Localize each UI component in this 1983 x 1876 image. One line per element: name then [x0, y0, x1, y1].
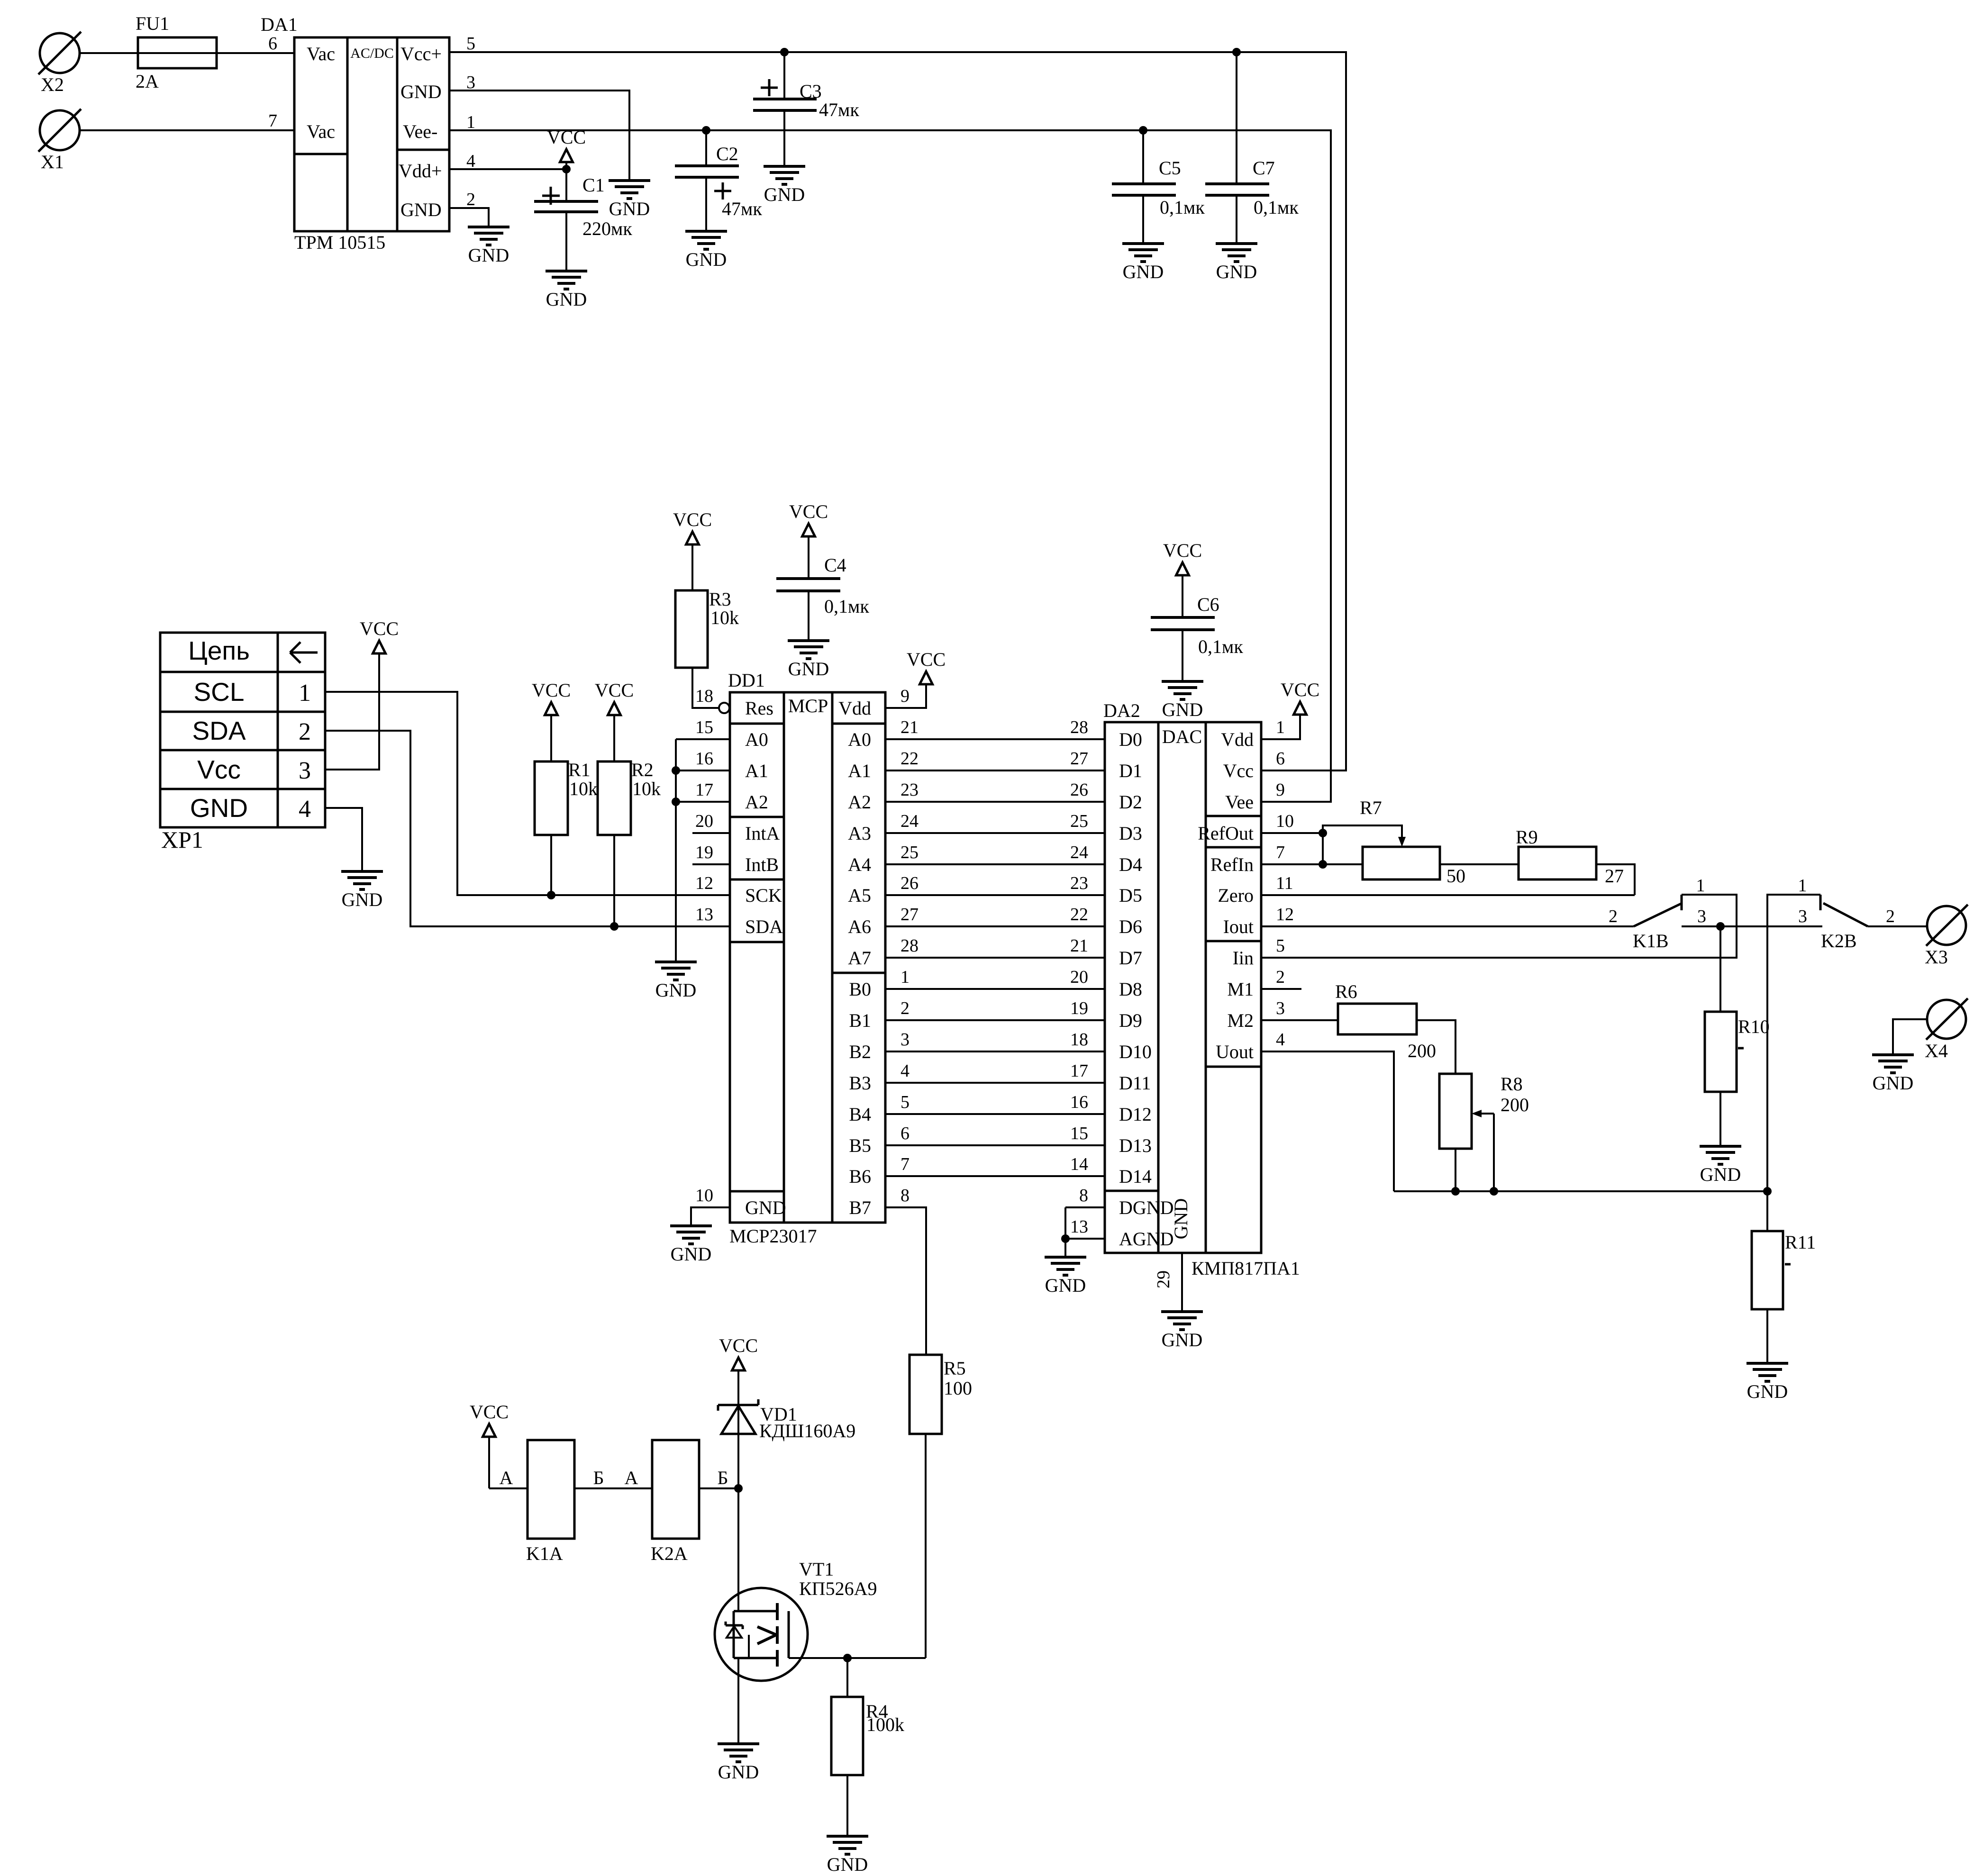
wire DA1 pin4 Vdd+ — [449, 168, 566, 170]
svg-text:FU1: FU1 — [136, 13, 169, 34]
wire R7 to R9 — [1440, 863, 1519, 865]
svg-text:5: 5 — [466, 34, 475, 54]
svg-text:15: 15 — [1070, 1124, 1088, 1143]
wire R11 to GND — [1766, 1309, 1768, 1363]
ground (DD1 pin10) — [670, 1226, 712, 1265]
svg-text:6: 6 — [1276, 749, 1285, 769]
AC/DC converter DA1 — [261, 14, 449, 253]
svg-text:13: 13 — [695, 905, 713, 924]
svg-text:VCC: VCC — [547, 127, 586, 148]
svg-text:A1: A1 — [745, 760, 768, 781]
svg-text:RefOut: RefOut — [1198, 823, 1254, 844]
svg-text:C6: C6 — [1197, 594, 1219, 615]
wire DA1 pin3 GND — [449, 91, 629, 181]
svg-text:7: 7 — [268, 111, 277, 131]
svg-text:GND: GND — [400, 81, 442, 102]
wire DA2 Vdd pin1 to VCC — [1261, 715, 1300, 739]
ground (C5) — [1122, 244, 1164, 282]
svg-text:R2: R2 — [631, 759, 654, 780]
svg-text:VT1: VT1 — [799, 1559, 834, 1580]
svg-text:Vcc+: Vcc+ — [400, 43, 442, 64]
svg-text:C4: C4 — [824, 554, 846, 576]
svg-text:D4: D4 — [1119, 854, 1142, 875]
svg-text:Uout: Uout — [1216, 1041, 1254, 1062]
svg-text:SCK: SCK — [745, 885, 782, 906]
svg-text:1: 1 — [1696, 876, 1705, 896]
svg-text:D1: D1 — [1119, 760, 1142, 781]
svg-text:GND: GND — [1747, 1381, 1788, 1402]
svg-text:А: А — [625, 1467, 638, 1488]
DA2 left pin numbers — [1070, 717, 1088, 1237]
resistor R2 — [598, 759, 661, 835]
wire DD1 GND pin10 — [691, 1207, 730, 1226]
ground (C6) — [1162, 681, 1203, 720]
svg-text:3: 3 — [1798, 906, 1807, 926]
wire XP1 pin4 to GND — [325, 808, 362, 871]
svg-text:4: 4 — [1276, 1030, 1285, 1050]
svg-text:5: 5 — [901, 1092, 910, 1112]
svg-text:VCC: VCC — [789, 501, 828, 522]
svg-text:21: 21 — [901, 717, 919, 737]
wire R8 bottom — [1455, 1149, 1456, 1191]
relay coil K1A — [500, 1440, 604, 1564]
svg-text:13: 13 — [1070, 1217, 1088, 1237]
svg-text:B6: B6 — [849, 1166, 871, 1187]
svg-text:Vac: Vac — [307, 121, 335, 142]
svg-text:A6: A6 — [848, 916, 871, 937]
power VCC (R3) — [673, 509, 712, 590]
svg-text:DA1: DA1 — [261, 14, 298, 35]
svg-text:22: 22 — [1070, 905, 1088, 924]
svg-text:C2: C2 — [716, 143, 738, 164]
pin number 7 — [268, 111, 277, 131]
ground (DA1 pin2) — [468, 227, 509, 266]
wire R6 to R8 — [1417, 1020, 1455, 1074]
svg-text:2: 2 — [1609, 906, 1618, 926]
wire DA2 Uout pin4 — [1261, 1051, 1394, 1191]
svg-text:GND: GND — [190, 793, 248, 823]
svg-text:19: 19 — [695, 843, 713, 862]
ground (VT1 source) — [718, 1744, 759, 1783]
svg-text:26: 26 — [901, 873, 919, 893]
pin number 6 — [268, 34, 277, 54]
ground (DA2 DGND/AGND) — [1045, 1257, 1086, 1296]
svg-text:B3: B3 — [849, 1072, 871, 1094]
resistor R11 — [1752, 1191, 1816, 1309]
svg-text:7: 7 — [1276, 843, 1285, 862]
svg-text:200: 200 — [1501, 1094, 1529, 1115]
svg-text:GND: GND — [1873, 1072, 1914, 1094]
svg-text:1: 1 — [299, 680, 311, 707]
wire DD1 IntA stub — [692, 832, 730, 834]
wire DD1 A0 A1 A2 to GND — [676, 739, 730, 962]
svg-text:Vdd: Vdd — [838, 698, 871, 719]
svg-text:R7: R7 — [1360, 797, 1382, 818]
svg-text:VCC: VCC — [532, 680, 571, 701]
svg-text:GND: GND — [1045, 1275, 1086, 1296]
wire DA2 M2 pin3 to R6 — [1261, 1019, 1338, 1021]
svg-text:VCC: VCC — [360, 618, 399, 639]
node R1/SCL — [547, 891, 555, 899]
svg-text:A5: A5 — [848, 885, 871, 906]
svg-text:K2A: K2A — [651, 1543, 688, 1564]
wire VT1 drain to R5/R4 — [789, 1434, 926, 1658]
node RefIn junction — [1319, 860, 1327, 869]
svg-text:10: 10 — [1276, 811, 1294, 831]
svg-text:10k: 10k — [710, 607, 739, 628]
svg-text:GND: GND — [546, 289, 587, 310]
svg-text:47мк: 47мк — [722, 198, 762, 219]
svg-text:2: 2 — [1276, 967, 1285, 987]
wire RefOut to R7 wiper — [1323, 825, 1402, 843]
svg-text:GND: GND — [788, 658, 829, 680]
DA2 left pin names — [1119, 729, 1174, 1250]
svg-text:M2: M2 — [1227, 1010, 1254, 1031]
resistor R9 — [1516, 826, 1624, 887]
svg-text:8: 8 — [1079, 1186, 1088, 1205]
svg-text:VCC: VCC — [1281, 679, 1319, 700]
svg-text:GND: GND — [1162, 1329, 1203, 1350]
svg-text:0,1мк: 0,1мк — [1254, 197, 1299, 218]
capacitor C4 — [776, 554, 869, 641]
svg-text:0,1мк: 0,1мк — [1160, 197, 1205, 218]
svg-text:Б: Б — [718, 1467, 728, 1488]
svg-text:C3: C3 — [800, 81, 822, 102]
svg-text:A3: A3 — [848, 823, 871, 844]
svg-text:23: 23 — [901, 780, 919, 800]
svg-text:VCC: VCC — [719, 1335, 758, 1356]
wire data bus A0-B6 to D0-D14 — [885, 739, 1105, 1176]
wire R4 to GND — [846, 1775, 848, 1836]
wire Vcc+ rail (DA1 pin5 to DA2 Vcc pin6) — [449, 52, 1346, 770]
wire DD1 IntB stub — [692, 863, 730, 865]
svg-text:AGND: AGND — [1119, 1228, 1174, 1250]
svg-text:КП526А9: КП526А9 — [799, 1578, 877, 1599]
svg-text:Б: Б — [593, 1467, 604, 1488]
ground (C4) — [788, 641, 829, 680]
svg-text:Vdd: Vdd — [1221, 729, 1254, 750]
svg-text:6: 6 — [268, 34, 277, 54]
svg-text:23: 23 — [1070, 873, 1088, 893]
svg-text:21: 21 — [1070, 936, 1088, 956]
diode VD1 — [718, 1370, 855, 1611]
svg-text:SDA: SDA — [745, 916, 783, 937]
ground (R11) — [1746, 1363, 1788, 1402]
ground (C2) — [685, 231, 727, 270]
wire DA2 DGND AGND to GND — [1065, 1207, 1105, 1257]
capacitor C7 — [1205, 52, 1299, 244]
power VCC (R2) — [595, 680, 634, 761]
svg-text:2: 2 — [299, 718, 311, 745]
svg-text:MCP: MCP — [788, 695, 828, 716]
IC DA2 body — [1103, 700, 1300, 1279]
svg-text:DA2: DA2 — [1103, 700, 1140, 721]
node VD1/gate junction — [734, 1484, 743, 1493]
DA2 right pin names — [1198, 729, 1254, 1062]
svg-text:КДШ160А9: КДШ160А9 — [759, 1420, 855, 1441]
svg-text:1: 1 — [1276, 717, 1285, 737]
svg-text:B4: B4 — [849, 1104, 871, 1125]
svg-text:7: 7 — [901, 1154, 910, 1174]
capacitor C1 — [534, 169, 632, 271]
svg-text:10k: 10k — [569, 778, 598, 799]
wire SCL net (XP1 pin1 to DD1 SCK pin12) — [325, 692, 730, 895]
wire K1A to K2A — [574, 1487, 652, 1489]
wire Uout bottom rail — [1394, 1190, 1767, 1192]
svg-text:XP1: XP1 — [161, 826, 203, 853]
svg-text:A2: A2 — [848, 791, 871, 813]
svg-text:D7: D7 — [1119, 947, 1142, 969]
wire DA2 RefOut pin10 — [1261, 832, 1323, 834]
node R11 top — [1763, 1187, 1772, 1196]
svg-text:B2: B2 — [849, 1041, 871, 1062]
svg-text:SDA: SDA — [192, 716, 246, 745]
svg-text:C7: C7 — [1253, 157, 1275, 179]
svg-text:R1: R1 — [568, 759, 591, 780]
svg-text:1: 1 — [466, 112, 475, 132]
DD1 left pin names — [745, 698, 786, 1218]
svg-text:2: 2 — [1886, 906, 1895, 926]
svg-text:9: 9 — [1276, 780, 1285, 800]
svg-text:1: 1 — [901, 967, 910, 987]
svg-text:D3: D3 — [1119, 823, 1142, 844]
power VCC (K1A) — [470, 1401, 509, 1488]
resistor R6 — [1335, 981, 1436, 1061]
svg-text:15: 15 — [695, 717, 713, 737]
svg-text:3: 3 — [1276, 998, 1285, 1018]
power VCC (DA2 Vdd) — [1281, 679, 1319, 715]
svg-text:200: 200 — [1408, 1040, 1436, 1061]
ground (XP1 pin4) — [341, 871, 383, 910]
svg-text:А: А — [500, 1467, 513, 1488]
svg-text:DGND: DGND — [1119, 1197, 1174, 1218]
XP1 label — [161, 826, 203, 853]
svg-text:25: 25 — [1070, 811, 1088, 831]
svg-text:22: 22 — [901, 749, 919, 769]
svg-text:27: 27 — [1605, 865, 1624, 887]
DD1 left pin numbers — [695, 686, 713, 1205]
wire X4 to GND — [1893, 1019, 1927, 1055]
svg-text:K1B: K1B — [1633, 930, 1669, 952]
svg-text:16: 16 — [1070, 1092, 1088, 1112]
svg-text:26: 26 — [1070, 780, 1088, 800]
power VCC (C4) — [789, 501, 828, 579]
svg-text:27: 27 — [1070, 749, 1088, 769]
svg-text:IntB: IntB — [745, 854, 779, 875]
node A2 junction — [672, 798, 680, 806]
svg-text:D0: D0 — [1119, 729, 1142, 750]
svg-text:16: 16 — [695, 749, 713, 769]
svg-text:A0: A0 — [745, 729, 768, 750]
svg-text:20: 20 — [695, 811, 713, 831]
svg-text:24: 24 — [1070, 843, 1088, 862]
svg-text:GND: GND — [1700, 1164, 1741, 1185]
switch contact K1B — [1609, 876, 1706, 952]
svg-text:Vcc: Vcc — [197, 755, 241, 784]
svg-text:1: 1 — [1798, 876, 1807, 896]
svg-text:GND: GND — [1162, 699, 1203, 720]
svg-text:4: 4 — [901, 1061, 910, 1081]
svg-text:K1A: K1A — [526, 1543, 563, 1564]
svg-text:GND: GND — [655, 979, 697, 1001]
DA2 right pin numbers — [1276, 717, 1294, 1050]
svg-text:DAC: DAC — [1162, 726, 1202, 747]
ground (C3) — [764, 166, 805, 205]
ground (R4) — [827, 1836, 868, 1875]
svg-text:R5: R5 — [944, 1358, 966, 1379]
svg-text:10: 10 — [695, 1186, 713, 1205]
svg-text:D5: D5 — [1119, 885, 1142, 906]
svg-text:0,1мк: 0,1мк — [824, 596, 869, 617]
svg-text:220мк: 220мк — [582, 218, 632, 239]
svg-text:2A: 2A — [136, 71, 159, 92]
svg-text:2: 2 — [901, 998, 910, 1018]
svg-text:B0: B0 — [849, 979, 871, 1000]
svg-text:3: 3 — [901, 1030, 910, 1050]
svg-text:11: 11 — [1276, 873, 1293, 893]
potentiometer R8 — [1439, 1073, 1529, 1149]
svg-text:X2: X2 — [41, 74, 64, 95]
svg-text:A2: A2 — [745, 791, 768, 813]
wire K1B to R10 — [1719, 926, 1721, 1012]
svg-text:C1: C1 — [582, 174, 605, 196]
svg-text:Zero: Zero — [1218, 885, 1254, 906]
svg-text:GND: GND — [1216, 261, 1257, 282]
resistor R1 — [535, 759, 598, 835]
svg-text:D8: D8 — [1119, 979, 1142, 1000]
svg-text:M1: M1 — [1227, 979, 1254, 1000]
svg-text:VCC: VCC — [1163, 540, 1202, 561]
ground (X4) — [1872, 1055, 1914, 1094]
wire K1B common — [1682, 925, 1822, 927]
svg-text:A4: A4 — [848, 854, 871, 875]
node Vee-/C2 — [702, 126, 710, 135]
svg-text:IntA: IntA — [745, 823, 780, 844]
svg-text:25: 25 — [901, 843, 919, 862]
svg-text:Iout: Iout — [1223, 916, 1254, 937]
ground (DD1 address pins) — [655, 962, 697, 1001]
svg-text:3: 3 — [1697, 906, 1706, 926]
svg-text:ТРМ 10515: ТРМ 10515 — [294, 232, 385, 253]
wire DA2 Iin pin5 to K1B contact1 — [1261, 895, 1737, 958]
svg-text:GND: GND — [1123, 261, 1164, 282]
svg-text:D11: D11 — [1119, 1072, 1151, 1094]
resistor R10 — [1705, 1012, 1770, 1092]
svg-text:КМП817ПА1: КМП817ПА1 — [1192, 1258, 1300, 1279]
node Vee-/C5 — [1139, 126, 1147, 135]
svg-text:2: 2 — [466, 190, 475, 209]
power VCC (C6) — [1163, 540, 1202, 617]
svg-text:VCC: VCC — [595, 680, 634, 701]
wire VT1 source to GND — [737, 1658, 739, 1744]
svg-text:8: 8 — [901, 1186, 910, 1205]
svg-text:18: 18 — [695, 686, 713, 706]
svg-text:0,1мк: 0,1мк — [1198, 636, 1243, 657]
svg-text:SCL: SCL — [194, 677, 245, 707]
power VCC (at C1) — [547, 127, 586, 169]
svg-text:GND: GND — [745, 1197, 786, 1218]
wire R10 to GND — [1719, 1092, 1721, 1146]
svg-text:GND: GND — [671, 1243, 712, 1265]
wire R1 to SCL — [550, 835, 552, 895]
potentiometer R7 — [1360, 797, 1465, 887]
svg-text:18: 18 — [1070, 1030, 1088, 1050]
svg-text:D13: D13 — [1119, 1135, 1152, 1156]
node K1B common / R10 — [1716, 922, 1725, 931]
wire K2A to VD1 node — [699, 1487, 738, 1489]
svg-text:9: 9 — [901, 686, 910, 706]
svg-text:X4: X4 — [1925, 1040, 1948, 1061]
wire DA2 M1 pin2 stub — [1261, 988, 1301, 990]
svg-text:17: 17 — [695, 780, 713, 800]
svg-text:12: 12 — [1276, 905, 1294, 924]
node RefOut junction — [1319, 829, 1327, 837]
IC DD1 body — [728, 670, 885, 1247]
node A1 junction — [672, 766, 680, 775]
svg-text:4: 4 — [299, 796, 311, 823]
node Vdd+/C1 — [562, 165, 571, 173]
svg-text:VCC: VCC — [907, 649, 946, 670]
node R8 bottom — [1451, 1187, 1460, 1196]
connector XP1 — [160, 633, 325, 827]
wire R3 to DD1 Res pin18 — [692, 668, 719, 708]
svg-text:GND: GND — [718, 1761, 759, 1783]
wire DA2 pin29 to GND — [1181, 1253, 1183, 1312]
svg-text:100: 100 — [944, 1378, 972, 1399]
ground (R10) — [1700, 1146, 1741, 1185]
svg-text:28: 28 — [901, 936, 919, 956]
capacitor C3 — [753, 52, 859, 166]
svg-text:GND: GND — [468, 245, 509, 266]
svg-text:Res: Res — [745, 698, 773, 719]
svg-text:3: 3 — [466, 73, 475, 92]
ground (C1) — [546, 271, 587, 310]
inversion bubble (DD1 Res) — [719, 703, 729, 713]
svg-text:R9: R9 — [1516, 826, 1538, 848]
svg-text:28: 28 — [1070, 717, 1088, 737]
power VCC (XP1 Vcc) — [360, 618, 399, 653]
wire DD1 B7 pin8 to R5 — [885, 1207, 926, 1355]
wire DD1 pin9 to VCC — [885, 684, 926, 708]
svg-text:D2: D2 — [1119, 791, 1142, 813]
svg-text:D10: D10 — [1119, 1041, 1152, 1062]
svg-text:C5: C5 — [1159, 157, 1181, 179]
DD1 right pin numbers — [901, 686, 919, 1205]
svg-text:Vee-: Vee- — [403, 121, 437, 142]
connector X4 — [1925, 998, 1968, 1061]
svg-text:D12: D12 — [1119, 1104, 1152, 1125]
wire XP1 pin3 to VCC — [325, 653, 379, 770]
svg-text:50: 50 — [1446, 865, 1465, 887]
resistor R3 — [675, 589, 739, 668]
wire R9 to Zero net — [1596, 864, 1635, 895]
svg-text:GND: GND — [686, 249, 727, 270]
svg-text:RefIn: RefIn — [1210, 854, 1254, 875]
switch contact K2B — [1798, 876, 1895, 952]
svg-text:Цепь: Цепь — [188, 636, 250, 665]
svg-text:GND: GND — [827, 1854, 868, 1874]
wire X2 to FU1 to DA1 pin6 — [80, 52, 294, 54]
wire R8 wiper down — [1493, 1114, 1495, 1191]
svg-text:GND: GND — [609, 198, 650, 219]
node drain junction — [843, 1654, 852, 1662]
connector X3 — [1925, 905, 1968, 968]
svg-text:100k: 100k — [866, 1714, 904, 1735]
svg-text:A0: A0 — [848, 729, 871, 750]
wire DA2 Iout pin12 to K1B — [1261, 925, 1634, 927]
svg-text:R8: R8 — [1501, 1073, 1523, 1095]
wire DA1 pin2 GND — [449, 208, 489, 227]
